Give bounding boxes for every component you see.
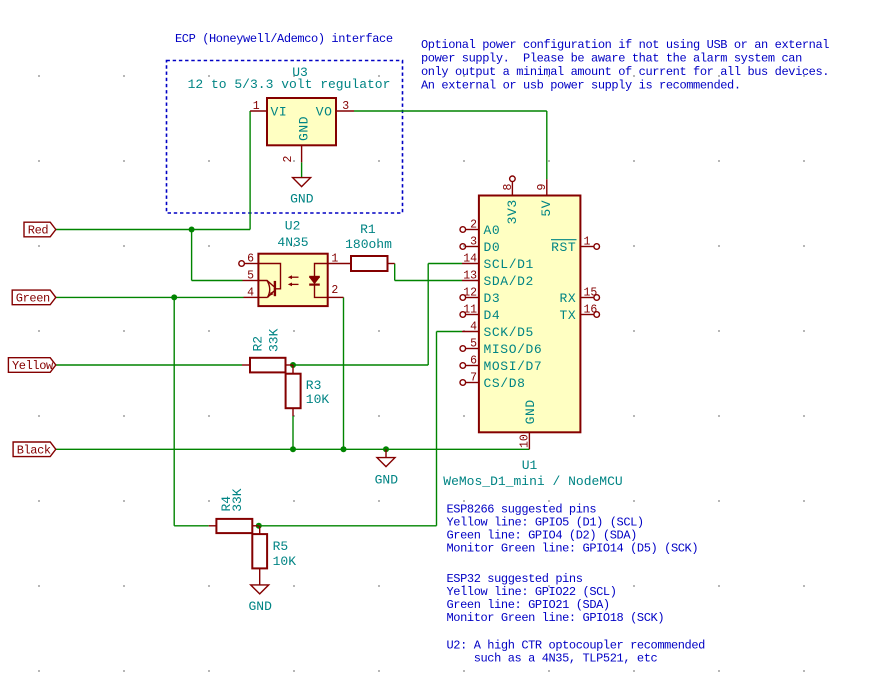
wire riser up to SCL row <box>427 264 429 366</box>
svg-text:6: 6 <box>247 253 254 266</box>
svg-text:Yellow line: GPIO22 (SCL): Yellow line: GPIO22 (SCL) <box>447 585 617 599</box>
wire into SCK/D5 pin <box>437 331 463 333</box>
svg-text:D0: D0 <box>484 240 501 255</box>
hierarchical label Red <box>24 222 56 238</box>
svg-text:Optional power configuration i: Optional power configuration if not usin… <box>421 38 829 52</box>
svg-text:D4: D4 <box>484 308 501 323</box>
svg-text:Yellow: Yellow <box>12 359 54 373</box>
U2 pin 6 (base, unconnected) <box>239 253 259 267</box>
wire VO to 5V net (horiz) <box>354 110 547 112</box>
resistor R2 body <box>250 358 286 373</box>
U2 pin 5 (collector) <box>243 270 259 283</box>
hierarchical label Yellow <box>8 358 55 374</box>
svg-text:15: 15 <box>584 286 598 299</box>
svg-text:10K: 10K <box>306 392 330 407</box>
wire U2 pin2 down to Black net <box>343 297 345 449</box>
U1 pin 9 5V <box>536 179 549 195</box>
svg-text:12 to 5/3.3 volt regulator: 12 to 5/3.3 volt regulator <box>188 77 391 92</box>
optocoupler U2 body <box>258 254 327 306</box>
svg-text:5: 5 <box>470 337 477 350</box>
svg-text:5: 5 <box>247 270 254 283</box>
ground symbol below R5 <box>248 585 272 614</box>
U1 pin 3 D0 <box>460 235 500 255</box>
svg-text:WeMos_D1_mini / NodeMCU: WeMos_D1_mini / NodeMCU <box>443 474 622 489</box>
R5 leads <box>259 526 261 585</box>
R3 leads <box>292 365 294 416</box>
ground symbol below U3 <box>290 178 314 207</box>
svg-text:such as a 4N35, TLP521, etc: such as a 4N35, TLP521, etc <box>474 651 658 665</box>
svg-text:16: 16 <box>584 303 598 316</box>
graphic dashed box around regulator section <box>167 61 403 214</box>
U3 pin 2 GND <box>282 145 302 162</box>
R4 leads <box>209 525 259 527</box>
wire R3 bottom to Black net <box>292 416 294 449</box>
svg-text:MISO/D6: MISO/D6 <box>484 342 543 357</box>
note: ESP32 suggested pins <box>447 572 665 625</box>
hierarchical label Green <box>12 290 56 306</box>
svg-text:RST: RST <box>551 240 576 255</box>
wire R1 output down <box>394 264 396 281</box>
U1 pin 4 SCK/D5 <box>462 320 534 340</box>
wire Black net (horiz) <box>56 448 530 450</box>
svg-text:6: 6 <box>470 354 477 367</box>
svg-text:1: 1 <box>331 253 338 266</box>
svg-text:ESP32 suggested pins: ESP32 suggested pins <box>447 572 583 586</box>
wire Red net branch down to U2 pin5 <box>191 230 193 281</box>
R2 leads <box>242 364 293 366</box>
svg-text:An external or usb power suppl: An external or usb power supply is recom… <box>421 78 741 92</box>
svg-text:Monitor Green line: GPIO14 (D5: Monitor Green line: GPIO14 (D5) (SCK) <box>447 541 699 555</box>
svg-text:GND: GND <box>523 399 538 424</box>
wire Green net (horiz) <box>56 296 244 298</box>
svg-text:Red: Red <box>28 224 49 238</box>
svg-text:Monitor Green line: GPIO18 (SC: Monitor Green line: GPIO18 (SCK) <box>447 611 665 625</box>
svg-text:2: 2 <box>282 156 295 163</box>
svg-text:ECP (Honeywell/Ademco) interfa: ECP (Honeywell/Ademco) interface <box>175 32 393 46</box>
svg-text:4N35: 4N35 <box>277 235 308 250</box>
svg-text:10: 10 <box>519 434 532 448</box>
svg-text:7: 7 <box>470 371 477 384</box>
svg-text:U2: A high CTR optocoupler rec: U2: A high CTR optocoupler recommended <box>447 638 706 652</box>
svg-text:33K: 33K <box>230 488 245 512</box>
hierarchical label Black <box>13 442 56 458</box>
svg-text:VO: VO <box>316 104 333 119</box>
svg-text:GND: GND <box>375 473 399 488</box>
U3 pin 1 VI <box>250 100 267 113</box>
svg-text:180ohm: 180ohm <box>345 237 392 252</box>
svg-text:4: 4 <box>470 320 477 333</box>
wire Yellow net (horiz) <box>56 364 242 366</box>
R1 right lead <box>388 263 395 265</box>
svg-text:9: 9 <box>536 184 549 191</box>
note: optional power configuration paragraph <box>421 38 829 92</box>
svg-text:33K: 33K <box>266 328 281 352</box>
U1 pin 14 SCL/D1 <box>462 252 534 272</box>
svg-text:A0: A0 <box>484 223 501 238</box>
svg-text:U1: U1 <box>522 458 538 473</box>
svg-text:U2: U2 <box>285 219 301 234</box>
U1 pin 7 CS/D8 <box>460 371 526 391</box>
wire Green net branch down to R4 <box>173 297 175 525</box>
svg-text:8: 8 <box>502 184 515 191</box>
svg-text:1: 1 <box>584 235 591 248</box>
U1 pin 8 3V3 (unconnected) <box>502 176 515 196</box>
svg-text:11: 11 <box>463 303 477 316</box>
svg-text:Yellow line: GPIO5 (D1) (SCL): Yellow line: GPIO5 (D1) (SCL) <box>447 515 644 529</box>
resistor R4 body <box>216 519 252 533</box>
wire R2 output to riser (horiz) <box>293 364 428 366</box>
wire into SDA/D2 pin <box>395 280 462 282</box>
U1 pin 2 A0 <box>460 218 500 238</box>
wire VO net down to pin 9 5V <box>546 111 548 179</box>
svg-text:3: 3 <box>342 100 349 113</box>
wire U3 VI down to Red net <box>249 111 251 230</box>
svg-text:D3: D3 <box>484 291 501 306</box>
svg-text:SCK/D5: SCK/D5 <box>484 325 534 340</box>
note: ESP8266 suggested pins <box>447 502 699 555</box>
svg-text:12: 12 <box>463 286 477 299</box>
svg-text:3: 3 <box>470 235 477 248</box>
resistor R1 body <box>351 256 388 271</box>
svg-text:CS/D8: CS/D8 <box>484 376 526 391</box>
U1 pin 10 GND <box>519 432 532 449</box>
ground symbol on Black net <box>375 449 399 487</box>
svg-text:2: 2 <box>470 218 477 231</box>
U1 pin 6 MOSI/D7 <box>460 354 542 374</box>
wire SCK riser down to R4 net <box>436 332 438 526</box>
svg-text:MOSI/D7: MOSI/D7 <box>484 359 543 374</box>
svg-text:4: 4 <box>247 286 254 299</box>
svg-text:power supply. Please be aware: power supply. Please be aware that the a… <box>421 52 802 66</box>
junction Green net / R4 branch <box>171 294 177 300</box>
svg-text:ESP8266 suggested pins: ESP8266 suggested pins <box>447 502 597 516</box>
U1 pin 16 TX <box>559 303 599 323</box>
junction GND symbol on Black net <box>383 446 389 452</box>
wire R4 output to riser (horiz) <box>259 525 437 527</box>
svg-text:GND: GND <box>290 191 314 206</box>
resistor R5 body <box>252 534 267 568</box>
U1 pin 12 D3 <box>460 286 500 306</box>
svg-text:13: 13 <box>463 269 477 282</box>
U1 pin 1 RST <box>551 235 600 255</box>
svg-text:only output a minimal amount o: only output a minimal amount of current … <box>421 65 829 79</box>
svg-text:Green line: GPIO4 (D2) (SDA): Green line: GPIO4 (D2) (SDA) <box>447 528 637 542</box>
junction R3 on Black net <box>290 446 296 452</box>
U3 pin 3 VO <box>336 100 354 113</box>
U2 pin 1 (anode) feeding R1 <box>328 253 351 266</box>
junction U2 pin2 on Black net <box>341 446 347 452</box>
U1 pin 5 MISO/D6 <box>460 337 542 357</box>
wire to U2 pin5 (horiz) <box>192 280 243 282</box>
svg-text:14: 14 <box>463 252 477 265</box>
wire into SCL/D1 pin <box>428 263 462 265</box>
svg-text:R2: R2 <box>251 336 266 352</box>
svg-text:1: 1 <box>253 100 260 113</box>
svg-text:SCL/D1: SCL/D1 <box>484 257 534 272</box>
svg-text:GND: GND <box>248 599 272 614</box>
svg-text:GND: GND <box>296 116 311 141</box>
U1 pin 13 SDA/D2 <box>462 269 534 289</box>
svg-text:Black: Black <box>17 444 51 458</box>
svg-text:10K: 10K <box>273 554 297 569</box>
svg-text:TX: TX <box>559 308 576 323</box>
wire U3 pin2 to GND symbol <box>301 162 303 177</box>
note: U2 optocoupler recommendation <box>447 638 706 665</box>
wire Green branch to R4 (horiz) <box>174 525 209 527</box>
junction R2-R3 node <box>290 362 296 368</box>
svg-text:VI: VI <box>271 104 288 119</box>
voltage regulator U3 body <box>267 98 336 145</box>
svg-text:SDA/D2: SDA/D2 <box>484 274 534 289</box>
U2 pin 4 (emitter) <box>244 286 259 299</box>
svg-text:Green: Green <box>16 292 50 306</box>
svg-text:R1: R1 <box>360 222 376 237</box>
svg-text:R5: R5 <box>273 539 289 554</box>
svg-text:R3: R3 <box>306 378 322 393</box>
svg-text:2: 2 <box>331 284 338 297</box>
U2 pin 2 (cathode) <box>328 284 344 297</box>
U1 pin 11 D4 <box>460 303 500 323</box>
U1 pin 15 RX <box>559 286 599 306</box>
svg-text:5V: 5V <box>539 200 554 217</box>
svg-text:3V3: 3V3 <box>505 199 520 224</box>
svg-text:Green line: GPIO21 (SDA): Green line: GPIO21 (SDA) <box>447 598 610 612</box>
junction Red net / U2 pin5 branch <box>189 227 195 233</box>
wire Red net (horiz) <box>56 229 250 231</box>
IC U1 body (WeMos D1 mini / NodeMCU) <box>479 196 581 433</box>
resistor R3 body <box>286 374 301 409</box>
svg-text:RX: RX <box>559 291 576 306</box>
junction R4-R5 node <box>256 523 262 529</box>
